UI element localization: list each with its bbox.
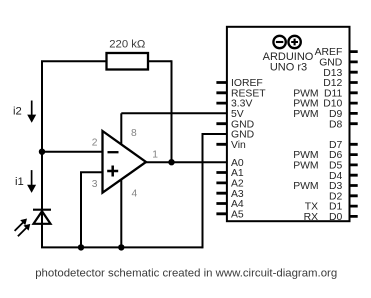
wire: top horizontal to resistor left xyxy=(41,60,107,62)
svg-text:D8: D8 xyxy=(329,119,343,130)
svg-text:i2: i2 xyxy=(13,106,22,118)
node: output/feedback junction xyxy=(168,159,174,165)
photodiode D1: light arrow 2 xyxy=(18,228,27,237)
wire: resistor right to feedback corner xyxy=(148,60,172,62)
svg-text:Vin: Vin xyxy=(231,140,246,151)
photodiode D1: cathode bar xyxy=(33,209,51,211)
Arduino U2: logo minus circle xyxy=(273,36,285,48)
photodiode D1: triangle xyxy=(34,211,51,224)
wire: +V rail to Arduino 5V pin xyxy=(121,112,227,114)
wire: pin 4 down to ground net xyxy=(120,179,122,247)
svg-text:A5: A5 xyxy=(231,209,244,220)
op-amp U1: minus symbol (inverting input) xyxy=(108,151,119,153)
svg-text:3: 3 xyxy=(92,179,98,190)
node: junction at inverting input branch xyxy=(39,149,45,155)
svg-text:A1: A1 xyxy=(231,168,244,179)
svg-text:PWM: PWM xyxy=(293,161,318,172)
arrow: current i2 (down) xyxy=(31,101,33,117)
wire: to op-amp inverting input pin 2 xyxy=(42,151,103,153)
wire: pin 3 to ground net (left then down) xyxy=(81,172,103,247)
arrow: current i1 (down) xyxy=(31,170,33,186)
wire: left vertical net (photodiode cathode to feedback top) xyxy=(41,61,43,247)
svg-text:1: 1 xyxy=(152,150,158,161)
svg-text:photodetector schematic create: photodetector schematic created in www.c… xyxy=(35,267,337,279)
svg-text:8: 8 xyxy=(131,128,137,139)
Arduino U2: left pin stubs xyxy=(216,83,227,214)
photodiode D1: light arrow 1 xyxy=(15,222,24,231)
Arduino U2: logo plus circle xyxy=(288,36,300,48)
svg-text:RX: RX xyxy=(304,212,319,223)
wire: ground rail up to Arduino GND pin xyxy=(203,134,228,248)
wire: pin 8 up to +V rail xyxy=(120,113,122,145)
svg-text:i1: i1 xyxy=(15,176,24,188)
Arduino U2: right pin stubs xyxy=(350,52,358,217)
resistor R1 body xyxy=(107,53,149,70)
Arduino U2: body outline xyxy=(227,27,350,221)
svg-text:4: 4 xyxy=(132,189,138,200)
wire: output pin 1 to Arduino A0 xyxy=(146,161,228,163)
svg-text:2: 2 xyxy=(92,137,98,148)
wire: bottom ground rail xyxy=(41,246,203,248)
svg-text:D0: D0 xyxy=(329,212,343,223)
svg-text:220 kΩ: 220 kΩ xyxy=(109,39,145,51)
wire: feedback vertical down to output node xyxy=(171,60,173,162)
node: junction ground / pin3 wire xyxy=(78,244,84,250)
svg-text:UNO r3: UNO r3 xyxy=(270,61,307,73)
svg-text:PWM: PWM xyxy=(293,181,318,192)
node: junction ground / pin4 wire xyxy=(118,244,124,250)
op-amp U1: plus symbol (non-inverting input) xyxy=(107,166,118,177)
op-amp U1 triangle xyxy=(103,131,147,193)
svg-text:PWM: PWM xyxy=(293,109,318,120)
